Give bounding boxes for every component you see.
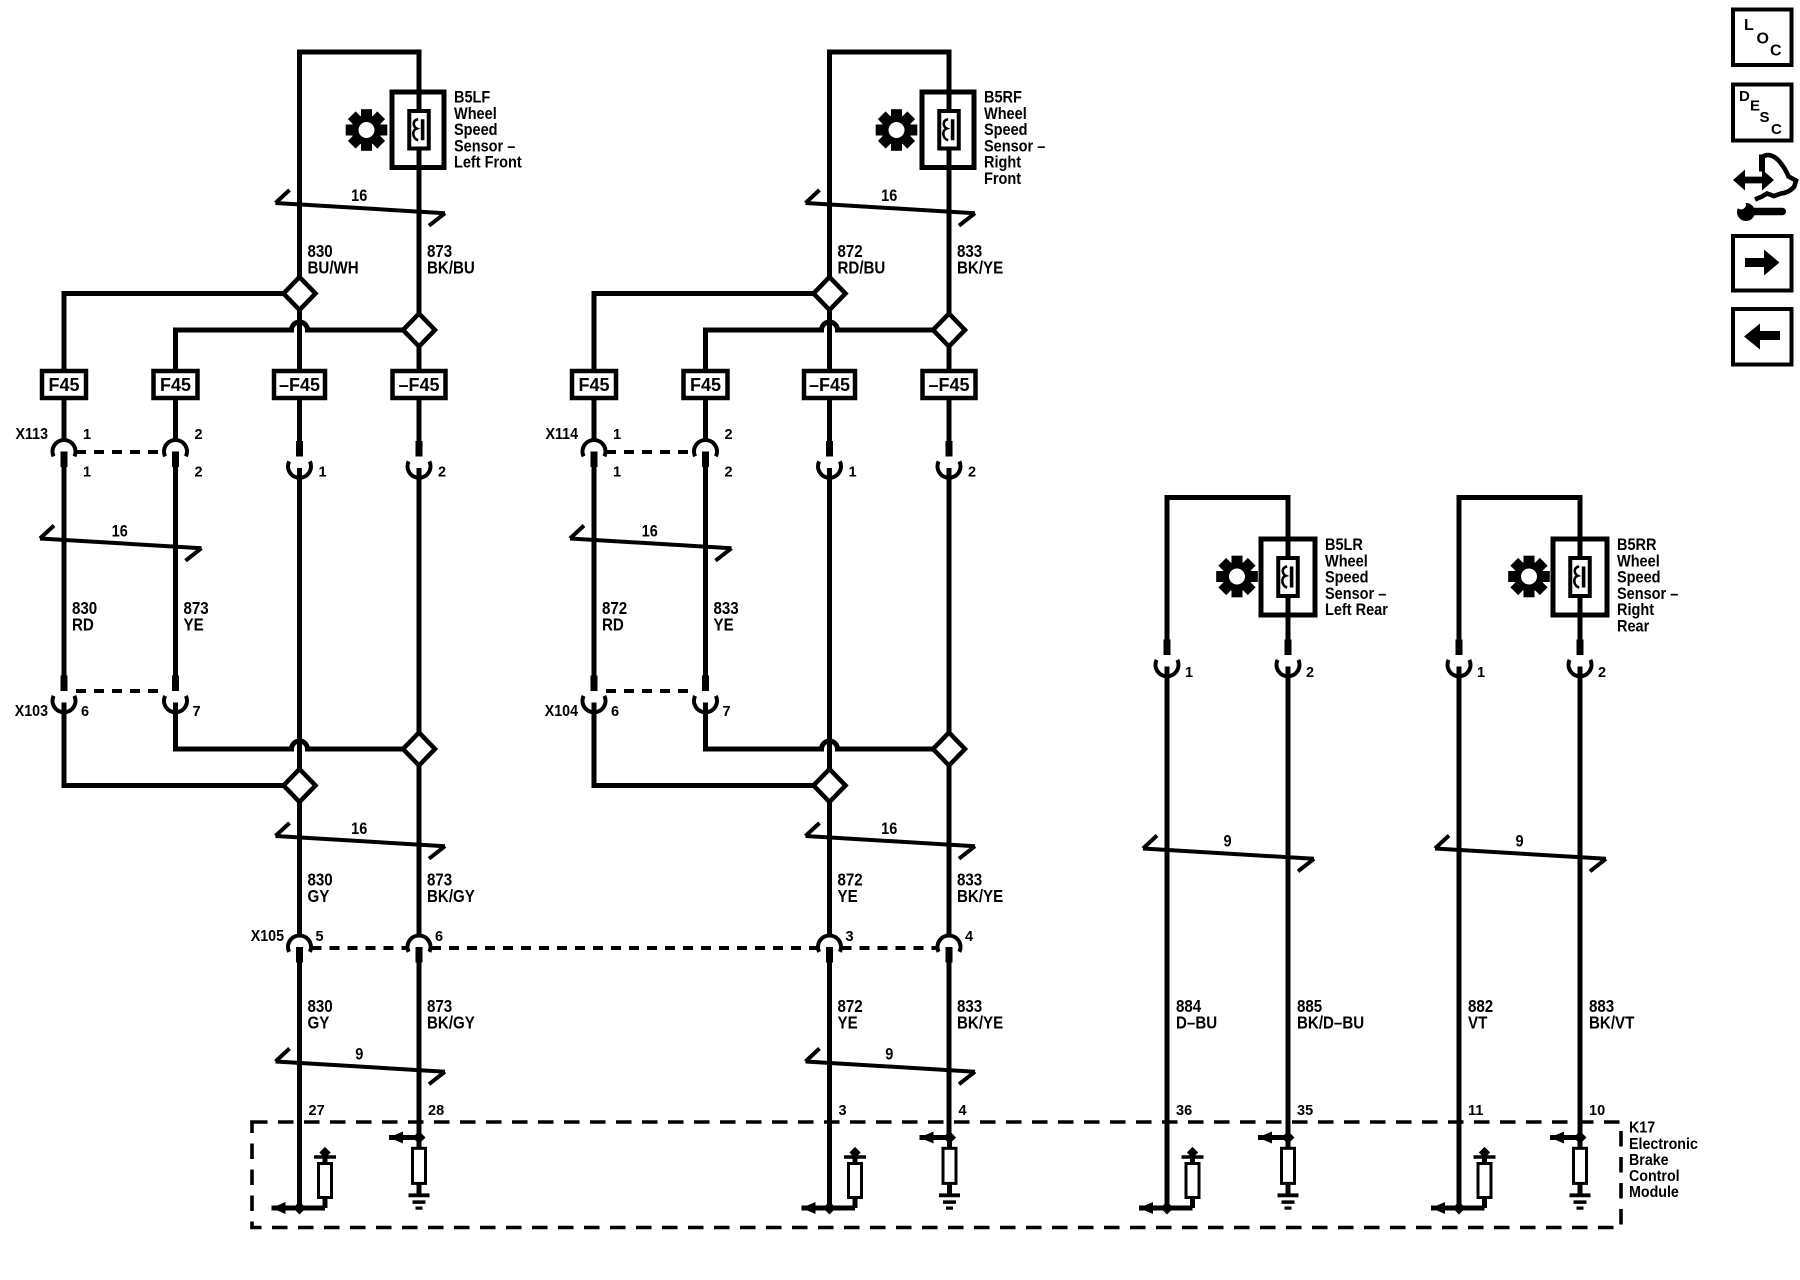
svg-text:1: 1 <box>849 465 857 481</box>
module internal resistor (pin 36) <box>1186 1158 1199 1208</box>
svg-text:9: 9 <box>1515 833 1523 851</box>
connector X104 pin 6 <box>583 676 620 721</box>
fuse –F45 (4) <box>923 371 976 398</box>
wire branch to fuse F45 (left) <box>594 291 814 371</box>
wire label 830 GY (below X105) <box>308 996 333 1033</box>
svg-text:2: 2 <box>1598 665 1606 681</box>
wire top loop B5LR <box>1165 495 1291 500</box>
wire merge to splice (left) <box>62 783 284 788</box>
module internal: signal arrow (pin 27) <box>272 1202 326 1214</box>
svg-text:2: 2 <box>195 465 203 481</box>
svg-text:6: 6 <box>81 704 89 720</box>
module internal supply (pin 3) <box>844 1147 866 1158</box>
module internal junction (pin 36) <box>1160 1201 1173 1214</box>
splice node lower left <box>814 769 846 802</box>
svg-text:BK/YE: BK/YE <box>957 886 1003 907</box>
svg-text:X114: X114 <box>546 427 579 444</box>
svg-text:2: 2 <box>725 465 733 481</box>
module internal resistor (pin 35) <box>1282 1138 1295 1196</box>
svg-text:Left Rear: Left Rear <box>1325 601 1388 619</box>
module internal resistor (pin 11) <box>1478 1158 1491 1208</box>
svg-text:35: 35 <box>1297 1103 1313 1119</box>
wire 873 BK/BU vertical <box>417 52 422 1138</box>
svg-text:O: O <box>1757 31 1769 48</box>
wire branch to fuse F45 (second) <box>176 322 404 371</box>
wire branch to fuse F45 (second) <box>706 322 934 371</box>
svg-text:X104: X104 <box>545 704 579 721</box>
module K17 Electronic Brake Control Module (dashed box) <box>252 1122 1621 1228</box>
svg-text:L: L <box>1744 17 1754 34</box>
connector X113 dashed link <box>76 450 164 454</box>
wire 872 RD/BU vertical <box>827 52 832 1208</box>
wire 833 BK/YE vertical <box>947 52 952 1138</box>
wire label 830 GY (above X105) <box>308 869 333 906</box>
module internal: signal arrow (pin 4) <box>920 1132 950 1144</box>
connector X103 pin 6 <box>52 676 89 721</box>
ground (pin 10) <box>1570 1195 1591 1208</box>
icon DESC box <box>1733 85 1792 141</box>
svg-text:9: 9 <box>1223 833 1231 851</box>
wheel speed sensor B5RR <box>1553 539 1607 615</box>
splice node lower right <box>933 733 965 766</box>
wire gauge slash 16 <box>806 187 976 226</box>
svg-text:GY: GY <box>308 1012 330 1033</box>
splice node on right sensor wire <box>403 314 435 347</box>
wire gauge slash 9 <box>1143 833 1314 872</box>
svg-text:BK/D–BU: BK/D–BU <box>1297 1012 1364 1033</box>
wire label 884 D–BU <box>1176 996 1217 1033</box>
svg-text:3: 3 <box>846 929 854 945</box>
svg-text:6: 6 <box>435 929 443 945</box>
wheel speed sensor B5LR <box>1261 539 1315 615</box>
svg-text:F45: F45 <box>690 375 721 395</box>
svg-text:YE: YE <box>838 1012 858 1033</box>
wire top loop B5LF <box>297 50 422 55</box>
svg-text:GY: GY <box>308 886 330 907</box>
svg-text:BK/YE: BK/YE <box>957 1012 1003 1033</box>
connector X103 dashed link <box>76 689 164 693</box>
wheel speed sensor B5RF <box>922 92 974 168</box>
svg-text:16: 16 <box>351 820 367 838</box>
module internal: signal arrow (pin 10) <box>1550 1132 1580 1144</box>
wire merge to splice (second) <box>706 741 934 749</box>
svg-text:VT: VT <box>1468 1012 1487 1033</box>
module internal resistor (pin 3) <box>849 1158 862 1208</box>
wire gauge slash 9 <box>806 1046 976 1085</box>
connector X114 pin 2 <box>694 427 733 481</box>
wire label 833 BK/YE (below X105) <box>957 996 1003 1033</box>
svg-text:16: 16 <box>112 522 128 540</box>
wire top loop B5RF <box>827 50 952 55</box>
module internal: signal arrow (pin 35) <box>1258 1132 1288 1144</box>
sensor B5LR connector pin 2 <box>1276 640 1314 682</box>
module internal resistor (pin 27) <box>319 1158 332 1208</box>
svg-text:1: 1 <box>83 465 91 481</box>
svg-text:3: 3 <box>839 1103 847 1119</box>
svg-text:4: 4 <box>959 1103 967 1119</box>
module internal junction (pin 4) <box>943 1131 956 1144</box>
wire 883 BK/VT vertical <box>1578 498 1583 1138</box>
connector X113 pin 1 <box>52 427 91 481</box>
wire label 873 YE <box>184 598 209 635</box>
sensor B5RF gear icon <box>876 109 918 151</box>
wire label 883 BK/VT <box>1589 996 1634 1033</box>
sensor B5LF gear icon <box>346 109 388 151</box>
svg-text:6: 6 <box>611 704 619 720</box>
wire 830 BU/WH vertical <box>297 52 302 1208</box>
module internal junction (pin 11) <box>1452 1201 1465 1214</box>
inline connector pin 1 (right pair) <box>818 441 857 481</box>
module internal: signal arrow (pin 28) <box>389 1132 419 1144</box>
wire 872 RD vertical <box>592 398 597 788</box>
wire label 872 RD <box>602 598 627 635</box>
fuse F45 (2) <box>154 371 198 398</box>
module internal supply (pin 11) <box>1474 1147 1496 1158</box>
svg-text:K17: K17 <box>1629 1120 1655 1137</box>
svg-text:9: 9 <box>355 1046 363 1064</box>
svg-text:F45: F45 <box>578 375 609 395</box>
wire gauge slash 16 (module side) <box>276 820 446 859</box>
connector X103 pin 7 <box>164 676 201 721</box>
connector X105 dashed link <box>312 946 407 950</box>
module internal supply (pin 27) <box>314 1147 336 1158</box>
connector X113 pin 2 <box>164 427 203 481</box>
sensor B5RR gear icon <box>1508 556 1550 598</box>
svg-text:9: 9 <box>885 1046 893 1064</box>
svg-text:16: 16 <box>881 820 897 838</box>
wire 830 RD vertical <box>62 398 67 788</box>
ground (pin 28) <box>409 1195 430 1208</box>
wire 884 D–BU vertical <box>1165 498 1170 1209</box>
svg-text:F45: F45 <box>48 375 79 395</box>
sensor B5RR connector pin 2 <box>1569 640 1607 682</box>
svg-text:1: 1 <box>1185 665 1193 681</box>
wire 873 YE vertical <box>173 398 178 752</box>
svg-text:1: 1 <box>1477 665 1485 681</box>
wire gauge slash 9 <box>1435 833 1606 872</box>
svg-text:BU/WH: BU/WH <box>308 257 359 278</box>
sensor B5LR gear icon <box>1216 556 1258 598</box>
svg-text:11: 11 <box>1468 1103 1483 1119</box>
fuse –F45 (3) <box>274 371 325 398</box>
svg-text:5: 5 <box>316 929 324 945</box>
fuse F45 (1) <box>572 371 616 398</box>
svg-text:BK/BU: BK/BU <box>427 257 475 278</box>
module internal junction (pin 28) <box>412 1131 425 1144</box>
svg-text:C: C <box>1770 43 1782 60</box>
svg-text:BK/GY: BK/GY <box>427 1012 475 1033</box>
svg-text:S: S <box>1760 109 1770 126</box>
wire top loop B5RR <box>1457 495 1583 500</box>
svg-text:7: 7 <box>193 704 201 720</box>
wire gauge slash 16 (fuse side) <box>40 522 202 560</box>
sensor B5LR connector pin 1 <box>1156 640 1194 682</box>
svg-text:D–BU: D–BU <box>1176 1012 1217 1033</box>
svg-text:2: 2 <box>725 427 733 443</box>
svg-text:D: D <box>1739 88 1750 105</box>
icon LOC box <box>1733 10 1792 66</box>
svg-text:28: 28 <box>428 1103 444 1119</box>
svg-text:10: 10 <box>1589 1103 1605 1119</box>
module internal: signal arrow (pin 3) <box>802 1202 856 1214</box>
svg-text:7: 7 <box>723 704 731 720</box>
svg-text:16: 16 <box>642 522 658 540</box>
svg-text:2: 2 <box>438 465 446 481</box>
svg-text:Control: Control <box>1629 1169 1680 1186</box>
svg-text:–F45: –F45 <box>809 375 850 395</box>
fuse F45 (2) <box>684 371 728 398</box>
fuse –F45 (3) <box>804 371 855 398</box>
module internal junction (pin 27) <box>293 1201 306 1214</box>
wire branch to fuse F45 (left) <box>64 291 284 371</box>
wire gauge slash 9 <box>276 1046 446 1085</box>
connector X105 pin 5 <box>288 929 324 963</box>
wire label 882 VT <box>1468 996 1493 1033</box>
svg-text:X105: X105 <box>251 929 284 946</box>
wire merge to splice (second) <box>176 741 404 749</box>
svg-text:X103: X103 <box>15 704 48 721</box>
wire gauge slash 16 (fuse side) <box>570 522 732 560</box>
svg-text:BK/GY: BK/GY <box>427 886 475 907</box>
sensor B5RR label <box>1617 536 1679 636</box>
svg-text:F45: F45 <box>160 375 191 395</box>
connector X105 pin 6 <box>408 929 444 963</box>
module internal junction (pin 3) <box>823 1201 836 1214</box>
fuse F45 (1) <box>42 371 86 398</box>
module internal: signal arrow (pin 36) <box>1139 1202 1193 1214</box>
connector X104 dashed link <box>606 689 694 693</box>
svg-text:RD/BU: RD/BU <box>838 257 886 278</box>
wire label 872 YE (above X105) <box>838 869 863 906</box>
module K17 label <box>1629 1120 1698 1201</box>
icon forward arrow box <box>1733 236 1792 291</box>
wire 833 YE vertical <box>703 398 708 752</box>
svg-text:4: 4 <box>965 929 973 945</box>
connector X114 pin 1 <box>583 427 622 481</box>
splice node on left sensor wire <box>814 277 846 310</box>
svg-text:1: 1 <box>83 427 91 443</box>
connector X105 pin 3 <box>818 929 854 963</box>
module internal resistor (pin 10) <box>1574 1138 1587 1196</box>
splice node on left sensor wire <box>284 277 316 310</box>
wire label 833 BK/YE (above X105) <box>957 869 1003 906</box>
ground (pin 4) <box>939 1195 960 1208</box>
svg-text:E: E <box>1750 98 1760 115</box>
svg-text:1: 1 <box>613 427 621 443</box>
svg-text:2: 2 <box>195 427 203 443</box>
ground (pin 35) <box>1278 1195 1299 1208</box>
splice node on right sensor wire <box>933 314 965 347</box>
svg-text:BK/YE: BK/YE <box>957 257 1003 278</box>
wire label 833 YE <box>714 598 739 635</box>
wire label 830 RD <box>72 598 97 635</box>
connector X105 pin 4 <box>938 929 974 963</box>
icon back arrow box <box>1733 309 1792 365</box>
svg-text:BK/VT: BK/VT <box>1589 1012 1634 1033</box>
svg-text:36: 36 <box>1176 1103 1192 1119</box>
svg-text:C: C <box>1771 121 1782 138</box>
wire label 885 BK/D–BU <box>1297 996 1364 1033</box>
wire label 873 BK/GY (below X105) <box>427 996 475 1033</box>
svg-text:YE: YE <box>184 614 204 635</box>
wire label 830 BU/WH <box>308 241 359 278</box>
sensor B5RF label <box>984 89 1046 189</box>
sensor B5LR label <box>1325 536 1388 619</box>
wire 882 VT vertical <box>1457 498 1462 1209</box>
wire gauge slash 16 <box>276 187 446 226</box>
fuse –F45 (4) <box>393 371 446 398</box>
svg-text:Brake: Brake <box>1629 1152 1669 1169</box>
connector X104 pin 7 <box>694 676 731 721</box>
svg-text:YE: YE <box>838 886 858 907</box>
module internal supply (pin 36) <box>1182 1147 1204 1158</box>
svg-text:1: 1 <box>613 465 621 481</box>
svg-text:X113: X113 <box>16 427 48 444</box>
svg-text:–F45: –F45 <box>398 375 439 395</box>
svg-text:RD: RD <box>72 614 94 635</box>
wire merge to splice (left) <box>592 783 814 788</box>
svg-text:Rear: Rear <box>1617 618 1649 636</box>
splice node lower left <box>284 769 316 802</box>
sensor B5LF label <box>454 89 522 172</box>
svg-text:2: 2 <box>1306 665 1314 681</box>
icon tools/double-arrow <box>1733 155 1796 222</box>
svg-text:16: 16 <box>881 187 897 205</box>
svg-text:2: 2 <box>968 465 976 481</box>
svg-text:16: 16 <box>351 187 367 205</box>
wire label 872 RD/BU <box>838 241 886 278</box>
module internal junction (pin 35) <box>1281 1131 1294 1144</box>
wire label 873 BK/GY (above X105) <box>427 869 475 906</box>
inline connector pin 2 (right pair) <box>938 441 977 481</box>
svg-text:–F45: –F45 <box>279 375 320 395</box>
svg-text:Module: Module <box>1629 1185 1679 1202</box>
inline connector pin 1 (right pair) <box>288 441 327 481</box>
module internal: signal arrow (pin 11) <box>1431 1202 1485 1214</box>
wire 885 BK/D–BU vertical <box>1286 498 1291 1138</box>
wire label 833 BK/YE <box>957 241 1003 278</box>
wire gauge slash 16 (module side) <box>806 820 976 859</box>
module internal resistor (pin 28) <box>413 1138 426 1196</box>
module internal junction (pin 10) <box>1573 1131 1586 1144</box>
splice node lower right <box>403 733 435 766</box>
svg-text:Front: Front <box>984 170 1021 188</box>
svg-text:–F45: –F45 <box>928 375 969 395</box>
svg-text:Left Front: Left Front <box>454 154 522 172</box>
svg-text:Electronic: Electronic <box>1629 1136 1698 1153</box>
svg-text:27: 27 <box>309 1103 325 1119</box>
wheel speed sensor B5LF <box>392 92 444 168</box>
sensor B5RR connector pin 1 <box>1447 640 1485 682</box>
svg-text:1: 1 <box>319 465 327 481</box>
inline connector pin 2 (right pair) <box>407 441 446 481</box>
wire label 872 YE (below X105) <box>838 996 863 1033</box>
svg-text:YE: YE <box>714 614 734 635</box>
wire label 873 BK/BU <box>427 241 475 278</box>
module internal resistor (pin 4) <box>943 1138 956 1196</box>
svg-text:RD: RD <box>602 614 624 635</box>
connector X114 dashed link <box>606 450 694 454</box>
